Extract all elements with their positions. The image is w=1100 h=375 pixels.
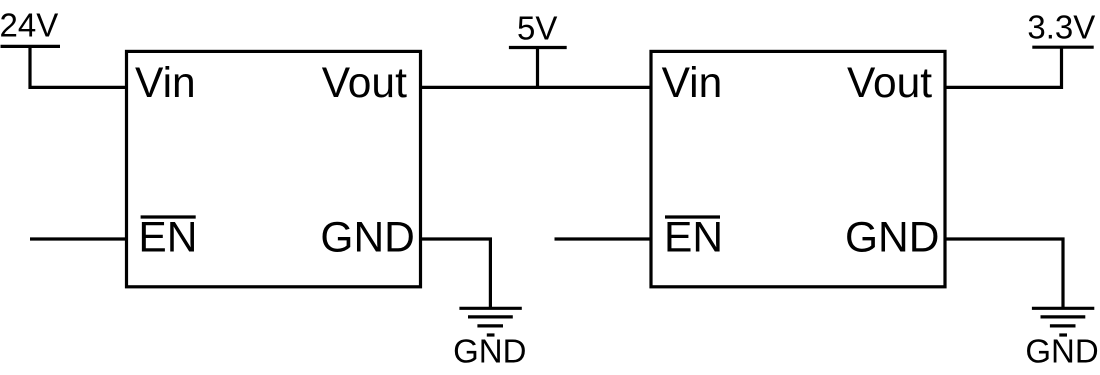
regulator U1 body [127,51,421,286]
svg-text:GND: GND [845,215,939,262]
node 5V tap stub [536,48,539,88]
svg-text:EN: EN [138,215,197,262]
wire U1 EN input (dangling) [30,237,127,240]
node 24V rail bar [1,45,61,48]
svg-text:24V: 24V [0,7,58,44]
svg-text:Vout: Vout [847,60,932,107]
wire U1 GND pin to ground [421,239,491,308]
U1 pin EN overline [141,215,196,218]
svg-text:EN: EN [664,215,723,262]
ground symbol for U2 [1032,308,1094,335]
svg-text:GND: GND [1025,333,1098,370]
svg-text:Vout: Vout [322,60,407,107]
svg-text:Vin: Vin [662,60,723,107]
U2 pin EN overline [665,215,720,218]
ground symbol for U1 [459,308,521,335]
node 3.3V rail bar [1032,46,1093,49]
wire U2 Vout to 3.3V rail [945,47,1062,87]
wire 24V rail to U1 Vin pin [30,46,127,87]
node 5V rail bar [509,46,567,49]
svg-text:GND: GND [320,215,414,262]
svg-text:GND: GND [453,333,526,370]
svg-text:5V: 5V [517,9,557,46]
regulator U2 body [651,51,945,286]
wire U1 Vout to U2 Vin (5V net) [421,86,652,89]
svg-text:3.3V: 3.3V [1027,9,1095,46]
svg-text:Vin: Vin [135,60,196,107]
wire U2 EN input (dangling) [555,237,652,240]
wire U2 GND pin to ground [945,239,1063,308]
